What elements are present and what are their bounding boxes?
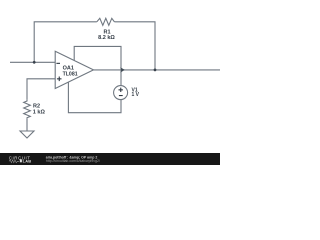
wire: top feedback horizontal right of R1 down to output: [114, 22, 155, 70]
wire: output: [94, 69, 221, 71]
resistor R2: [24, 100, 31, 119]
watermark bar: [0, 153, 220, 165]
junction node at output/feedback: [154, 69, 157, 72]
ground: [20, 131, 34, 138]
svg-text:1 V: 1 V: [132, 92, 140, 98]
watermark text: [46, 155, 100, 163]
svg-text:1 kΩ: 1 kΩ: [33, 109, 46, 115]
resistor R1: [97, 18, 115, 25]
wire: non-inverting input to R2: [27, 79, 55, 100]
svg-text:http://circuitlab.com/c/katvwp: http://circuitlab.com/c/katvwpl9vg2/: [46, 159, 100, 163]
V1 plus sign: [119, 89, 123, 90]
op-amp minus sign: [56, 63, 60, 64]
wire: V- pin loop to V1 minus: [68, 82, 121, 113]
svg-text:8.2 kΩ: 8.2 kΩ: [98, 35, 115, 41]
op-amp OA1 triangle: [55, 51, 93, 88]
wire: R2 to ground: [26, 119, 28, 131]
wire: top feedback horizontal left of R1: [34, 22, 97, 63]
wire: V+ pin loop to V1 plus: [74, 46, 121, 85]
junction arrow at output/V1 crossing: [120, 67, 125, 72]
svg-text:TL081: TL081: [63, 71, 78, 77]
wire: inverting input: [10, 61, 55, 63]
CircuitLab logo: [9, 155, 32, 163]
voltage source V1: [114, 86, 128, 100]
V1 minus sign: [119, 95, 123, 96]
svg-text:LAB: LAB: [23, 158, 32, 163]
junction node at inverting input: [33, 61, 36, 64]
op-amp plus sign: [57, 78, 62, 79]
